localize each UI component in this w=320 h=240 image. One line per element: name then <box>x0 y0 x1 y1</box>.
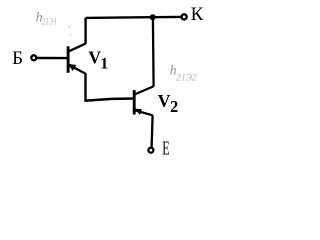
transistor V2 emitter diagonal <box>135 110 153 115</box>
transistor V2 base bar <box>133 90 136 114</box>
svg-text:21Э1: 21Э1 <box>42 16 57 26</box>
wire: base lead from Б to V1 <box>37 57 67 59</box>
svg-text:E: E <box>162 137 169 159</box>
wire: V2 collector vertical to junction <box>152 17 155 86</box>
svg-text:1: 1 <box>100 56 108 73</box>
label h21Э1 (gain of V1) <box>36 10 43 25</box>
svg-text:Б: Б <box>12 48 23 69</box>
terminal K circle <box>182 14 187 19</box>
terminal Б circle <box>31 55 36 60</box>
transistor V1 emitter arrowhead (points to base bar) <box>67 64 76 71</box>
scan speck <box>89 54 91 56</box>
wire: V1 collector vertical <box>84 18 86 44</box>
scan speck <box>68 26 70 28</box>
wire: top collector rail <box>86 17 181 18</box>
scan speck <box>70 34 72 36</box>
svg-text:2: 2 <box>170 97 178 116</box>
transistor V2 collector diagonal <box>135 86 154 94</box>
transistor V2 emitter arrowhead (points to base bar) <box>135 109 142 115</box>
wire: bottom horizontal to V2 base <box>84 99 133 101</box>
label h21Э2 (gain of V2) <box>170 63 177 78</box>
transistor V1 emitter diagonal <box>69 65 86 74</box>
transistor V1 base bar <box>67 46 70 73</box>
svg-text:К: К <box>191 4 204 25</box>
svg-text:21Э2: 21Э2 <box>176 73 197 83</box>
junction node (dot) on collector rail <box>150 14 156 20</box>
svg-text:V: V <box>158 91 171 111</box>
wire: V1 emitter vertical <box>84 73 86 100</box>
wire: V2 emitter vertical <box>152 115 153 147</box>
scan speck <box>157 97 159 99</box>
terminal E circle <box>148 148 153 153</box>
transistor V1 collector diagonal <box>69 44 86 52</box>
